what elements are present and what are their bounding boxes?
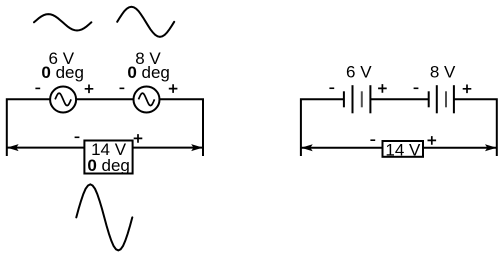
svg-text:6 V: 6 V (346, 63, 372, 82)
svg-text:0 deg: 0 deg (127, 63, 170, 82)
svg-text:8 V: 8 V (430, 63, 456, 82)
svg-text:0 deg: 0 deg (87, 156, 130, 175)
svg-text:0 deg: 0 deg (41, 63, 84, 82)
svg-text:14 V: 14 V (385, 140, 421, 159)
